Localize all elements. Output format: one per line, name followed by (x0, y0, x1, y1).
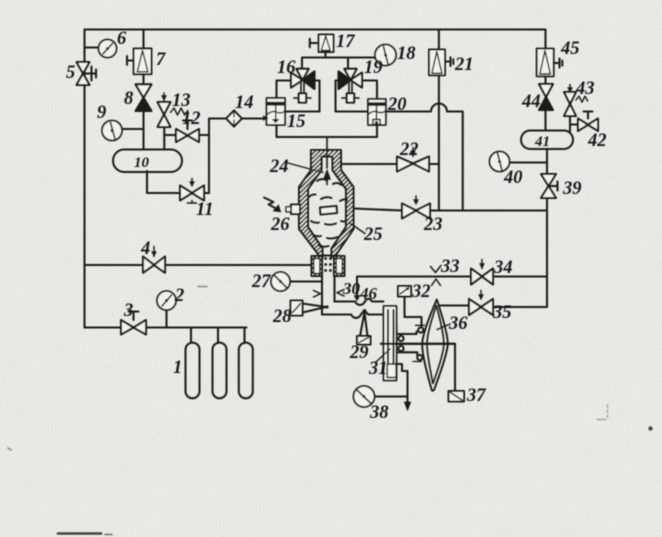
accumulator vessel 20 (368, 99, 386, 125)
svg-text:20: 20 (387, 95, 407, 115)
svg-text:43: 43 (575, 79, 595, 99)
svg-text:45: 45 (560, 39, 580, 59)
solenoid valve 45 (537, 49, 563, 77)
label 36 leader (437, 324, 450, 330)
wire: vertical riser x209 and filter line to vessel 15 (209, 119, 267, 194)
gauge 6 (99, 40, 117, 58)
wire: cylinder risers (191, 328, 245, 344)
svg-text:25: 25 (363, 225, 383, 245)
svg-text:14: 14 (235, 93, 254, 113)
svg-text:46: 46 (359, 284, 378, 303)
valve 39 (541, 174, 558, 198)
gauge 2 (157, 291, 176, 310)
stray scan marks (58, 532, 101, 535)
wire: valve 16 left loop into vessel 15 (277, 81, 292, 99)
gauge 9 (102, 121, 122, 141)
wire: riser to solenoid 7 and down through valve 8 to vessel 10 (142, 30, 144, 150)
filter 14 diamond (226, 111, 242, 127)
flame dashes inside chamber (309, 179, 347, 247)
wire: line through valve 4 to chamber flange (85, 264, 313, 266)
svg-text:2: 2 (174, 286, 184, 306)
svg-text:11: 11 (196, 200, 213, 220)
wire: propellant manifold to chamber neck (277, 126, 378, 138)
wire: vessel 41 down through valve 39 to lower headers (546, 149, 548, 307)
wire: gauge 6 stub (85, 46, 100, 48)
valve 42 (578, 112, 598, 132)
injector arrow inside neck (326, 137, 328, 185)
svg-text:36: 36 (448, 314, 468, 334)
valve 44 (539, 84, 553, 110)
wire: gauge 38 stub (375, 395, 408, 397)
label 31 leader (376, 349, 390, 362)
vessel 10 (113, 150, 182, 173)
flow tap triangle 46 on duct (354, 296, 359, 301)
gauge 38 (354, 386, 375, 407)
svg-text:16: 16 (277, 58, 296, 78)
combustion chamber 24/25 hatched walls (299, 150, 354, 256)
svg-text:13: 13 (172, 91, 191, 111)
svg-text:30: 30 (342, 279, 361, 298)
diffuser lower tap circle and tick (417, 355, 422, 360)
wire: gauge 9 stub (122, 128, 144, 130)
wire: valve 19 right loop into vessel 20 (362, 81, 377, 100)
thrust-stand tube 31 (384, 306, 397, 381)
svg-text:1: 1 (173, 358, 182, 378)
duct with flexible bellows to thrust tube (335, 299, 384, 305)
svg-text:17: 17 (336, 32, 355, 52)
wire: exhaust drop with bracket (397, 364, 408, 403)
valve 11 (180, 179, 204, 204)
svg-text:42: 42 (587, 131, 607, 151)
sensor 29 (357, 336, 371, 345)
wire: upper hook from thrust tube (397, 326, 417, 335)
wire: chamber side tap through valve 23 and across to right column (354, 209, 548, 211)
wire: vessel 20 output with hop over line A (387, 104, 463, 211)
solenoid valve 21 (429, 50, 453, 76)
flange bolt dots (324, 257, 332, 272)
wire: top main header line (85, 28, 546, 30)
valve 34 (471, 260, 493, 285)
sample holder rectangle inside chamber (320, 206, 337, 215)
valve 8 (136, 84, 152, 111)
svg-text:44: 44 (521, 92, 541, 112)
three-way valve 19 (339, 69, 363, 103)
wire: sensor 32 drop to diffuser tap (405, 297, 422, 328)
valve 12 (176, 121, 199, 143)
wire: sensor 28 vee linkage (303, 304, 327, 313)
thrust tube tap circles (398, 336, 403, 341)
valve 22 (397, 148, 429, 172)
svg-text:22: 22 (399, 140, 419, 160)
flow check marks 33 (431, 266, 442, 273)
svg-text:10: 10 (134, 155, 150, 171)
sensor 28 (291, 301, 303, 316)
flow mark 30 left chevron (337, 290, 344, 297)
svg-text:24: 24 (269, 157, 289, 177)
solenoid valve 17 (310, 35, 334, 53)
svg-text:19: 19 (364, 58, 383, 78)
component number labels (66, 29, 607, 423)
svg-text:38: 38 (369, 403, 389, 423)
svg-text:26: 26 (270, 215, 290, 235)
gauge 27 (271, 272, 290, 291)
label 24 leader line (286, 163, 323, 173)
exhaust arrow (404, 402, 410, 411)
relief valve 13 with spring (158, 93, 188, 127)
valve 4 (143, 247, 165, 273)
valve 5 (77, 62, 97, 85)
svg-text:4: 4 (140, 239, 150, 259)
wire: riser to solenoid 45 and down through valve 44 to vessel 41 (544, 30, 546, 131)
wire: riser to solenoid 21 (438, 30, 440, 50)
valve 35 (469, 291, 493, 316)
wire: lower hook from thrust tube (397, 352, 418, 355)
wire: gauge 40 stub (510, 161, 548, 163)
svg-text:21: 21 (454, 55, 474, 75)
svg-text:7: 7 (156, 50, 166, 70)
svg-text:15: 15 (287, 112, 306, 132)
wire: axis line to sensor 37 (381, 344, 455, 391)
svg-text:6: 6 (117, 29, 127, 49)
svg-text:37: 37 (466, 386, 486, 406)
flange block right (334, 256, 345, 276)
wire: valve 16 right loop into vessel 15 (285, 81, 320, 112)
svg-text:31: 31 (368, 359, 388, 379)
sensor 37 (449, 391, 465, 402)
cylinder bank 1 (186, 343, 200, 399)
wire: valve 19 left loop into vessel 20 (336, 81, 369, 112)
wire: gauge 27 stub (290, 280, 322, 282)
solenoid valve 7 (127, 49, 152, 75)
wire: vertical line A below solenoid 21 (438, 75, 440, 210)
gauge 40 (490, 152, 510, 172)
wire: branch to valves 13 and 12 (164, 127, 209, 150)
svg-text:23: 23 (423, 215, 443, 235)
wire: sensor 29 vee linkage with tap dot (363, 309, 367, 313)
svg-text:40: 40 (503, 168, 523, 188)
svg-text:28: 28 (272, 307, 292, 327)
sensor 32 (398, 286, 411, 297)
svg-text:41: 41 (534, 134, 550, 150)
wire: pilot header from solenoid 17 to gauge 18 (302, 52, 375, 69)
svg-text:27: 27 (251, 272, 271, 292)
accumulator vessel 15 (263, 98, 285, 125)
wire: chamber neck tap through valve 22 (341, 163, 439, 165)
svg-text:34: 34 (493, 258, 513, 278)
svg-text:18: 18 (397, 44, 416, 64)
label 25 leader line (349, 223, 365, 234)
diffuser upper tap circle and tick (418, 327, 423, 332)
flow mark right of pipe (314, 291, 321, 298)
svg-text:29: 29 (349, 343, 369, 363)
svg-text:35: 35 (492, 303, 512, 323)
wire: vessel 10 outlet through valve 11 (147, 171, 209, 193)
wire: bottom manifold line to cylinders (85, 326, 247, 328)
gauge 18 (375, 45, 396, 66)
wire: line through valve 34 with drop to diffuser inlet (357, 277, 547, 297)
ignition lightning arrow (264, 198, 278, 210)
igniter 26 boss on left wall (291, 205, 300, 215)
svg-text:3: 3 (123, 301, 133, 321)
svg-text:33: 33 (440, 257, 460, 277)
svg-text:32: 32 (411, 282, 431, 302)
relief valve 43 with spring (564, 85, 588, 117)
valve 3 (121, 312, 146, 335)
valve 23 (402, 196, 430, 219)
svg-text:12: 12 (182, 109, 201, 129)
svg-text:9: 9 (97, 103, 106, 123)
flange block left (312, 256, 323, 276)
svg-text:39: 39 (562, 179, 582, 199)
nozzle pipe below flange (322, 276, 335, 315)
wire: relief branch 43/42 into vessel 41 (570, 116, 578, 132)
svg-text:5: 5 (66, 63, 75, 83)
wire: gauge 2 stub (165, 310, 167, 328)
three-way valve 16 (291, 69, 315, 103)
vessel 41 (521, 131, 573, 150)
diffuser 36 double-walled (422, 300, 448, 391)
wire: left vertical main line (83, 30, 85, 328)
wire: line through valve 35 to diffuser shoulder (440, 306, 547, 308)
svg-text:8: 8 (124, 89, 133, 109)
chamber throat walls (323, 256, 332, 259)
